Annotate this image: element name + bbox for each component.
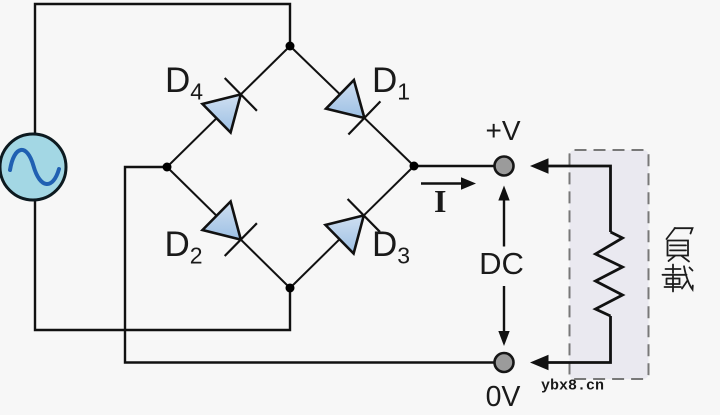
label 负 (load char 1, drawn strokes) [667, 228, 693, 262]
node: left junction [163, 163, 172, 172]
AC source V1 [0, 134, 66, 200]
wire: bridge arm top node to right node [290, 46, 414, 166]
wire: left node to 0V terminal [125, 167, 504, 363]
terminal 0V [495, 353, 514, 372]
svg-text:I: I [434, 183, 446, 219]
wire: right node to +V terminal [414, 165, 504, 167]
wire: bridge arm left node to top node [167, 46, 290, 167]
node: top junction [286, 42, 295, 51]
node: bottom junction [286, 284, 295, 293]
wire: AC source bottom to bottom node [35, 198, 290, 330]
wire: bridge arm left node to bottom node [167, 167, 290, 288]
DC arrow down [498, 286, 509, 346]
load wire top with arrow into +V [530, 158, 611, 232]
terminal +V [495, 157, 514, 176]
diode D3 [326, 199, 380, 254]
diode D1 [326, 80, 380, 135]
svg-text:ybx8.cn: ybx8.cn [541, 378, 604, 395]
svg-text:DC: DC [479, 246, 524, 281]
node: right junction [410, 162, 419, 171]
diode D4 [203, 78, 257, 133]
wire: bridge arm bottom node to right node [290, 166, 414, 288]
current arrow I [421, 177, 476, 190]
label 载 (load char 2, drawn strokes) [663, 265, 693, 292]
diode D2 [203, 202, 257, 257]
wire: AC source top to top node [35, 4, 290, 136]
svg-text:+V: +V [485, 115, 520, 146]
load box (dashed) [570, 150, 649, 379]
load wire bottom with arrow into 0V [530, 316, 611, 370]
DC arrow up [498, 186, 509, 247]
svg-text:0V: 0V [486, 381, 521, 413]
resistor (load) [596, 232, 623, 316]
